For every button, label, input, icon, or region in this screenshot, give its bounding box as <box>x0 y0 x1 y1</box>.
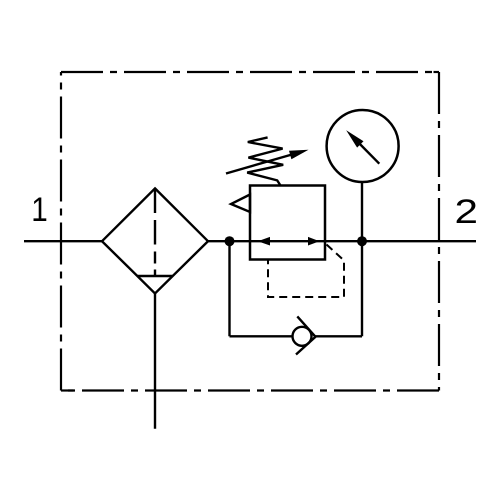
wire: filter drain line <box>154 294 156 429</box>
regulator R1 adjustment spring (zigzag) <box>247 137 283 185</box>
pressure gauge G1 dial <box>327 110 399 182</box>
svg-text:1: 1 <box>31 191 48 229</box>
filter F1 element (dashed centre line) <box>154 189 156 277</box>
wire: bypass right rise <box>361 240 363 336</box>
wire: gauge stem <box>361 182 363 241</box>
enclosure border (dash-dot assembly frame) <box>61 72 439 391</box>
wire: bypass bottom right <box>316 335 363 337</box>
wire: main line filter to outlet port 2 <box>208 240 476 242</box>
check valve V1 ball <box>293 327 312 346</box>
wire: bypass bottom left <box>230 335 293 337</box>
pressure gauge G1 needle <box>346 130 379 164</box>
node: junction dot left <box>225 236 235 246</box>
regulator R1 vent triangle <box>231 195 250 213</box>
filter F1 body (diamond) <box>102 188 208 293</box>
regulator R1 adjustment arrow <box>226 150 309 174</box>
wire: bypass left drop <box>228 240 230 336</box>
wire: inlet line port 1 to filter <box>24 240 102 242</box>
regulator R1 flow arrow left <box>258 237 270 246</box>
node: junction dot right <box>357 236 367 246</box>
filter F1 separator chord <box>138 275 173 277</box>
regulator R1 flow arrow right <box>308 237 320 246</box>
svg-text:2: 2 <box>455 193 479 231</box>
regulator R1 body (box) <box>250 186 325 260</box>
check valve V1 seat <box>296 316 316 354</box>
regulator R1 pilot line (dashed) <box>268 245 344 298</box>
